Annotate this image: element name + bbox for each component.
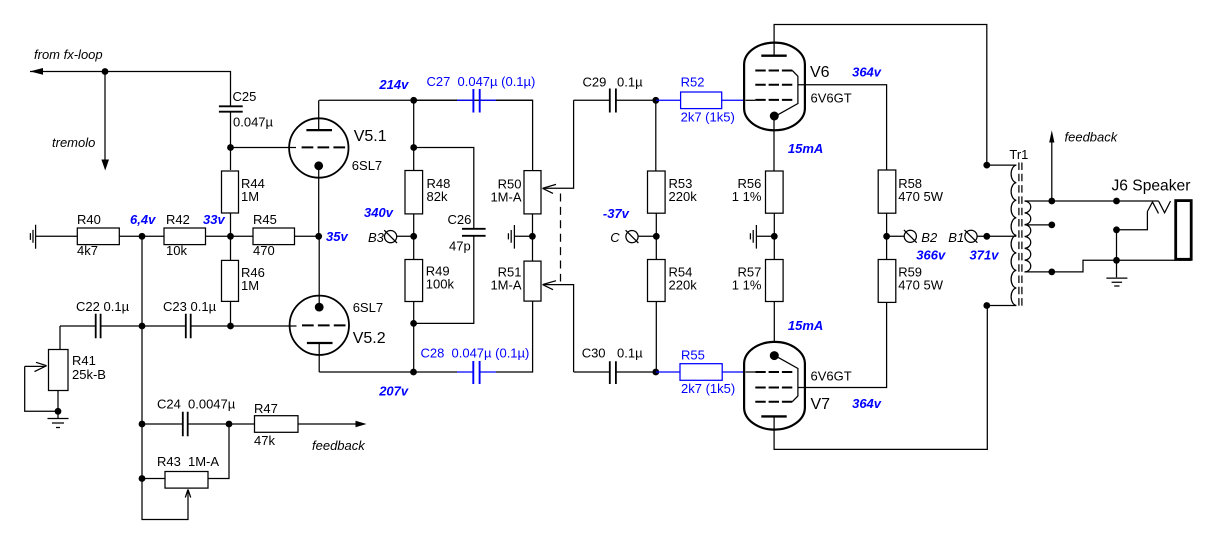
svg-text:C28: C28 — [421, 346, 445, 361]
ground left — [30, 225, 77, 249]
svg-text:1M-A: 1M-A — [188, 454, 219, 469]
svg-text:1M: 1M — [241, 189, 259, 204]
arrow tremolo — [101, 160, 109, 171]
svg-text:R42: R42 — [166, 212, 190, 227]
svg-text:470 5W: 470 5W — [898, 278, 944, 293]
svg-text:1M: 1M — [241, 278, 259, 293]
probe B3 — [397, 235, 414, 237]
svg-text:C27: C27 — [427, 74, 451, 89]
resistor R59 — [878, 260, 896, 303]
svg-text:B2: B2 — [921, 230, 938, 245]
node fx junction — [102, 68, 109, 75]
node 35v — [315, 233, 322, 240]
wire C22/C23 row — [60, 325, 297, 327]
wire V7 screen — [798, 302, 887, 388]
node 6,4v — [139, 233, 146, 240]
wire V5.2 plate — [319, 343, 413, 372]
wire speaker common — [1116, 230, 1118, 260]
svg-text:1M-A: 1M-A — [490, 278, 521, 293]
svg-text:364v: 364v — [852, 396, 882, 411]
svg-text:from fx-loop: from fx-loop — [34, 47, 103, 62]
svg-text:C30: C30 — [582, 345, 606, 360]
node speaker ring — [1113, 226, 1120, 233]
R41 wiper — [25, 366, 58, 411]
ground R41 — [48, 411, 69, 427]
node C26 top branch — [410, 144, 417, 151]
wire V6 plate top — [774, 25, 987, 166]
wire R45 to cathode node — [295, 235, 319, 237]
probe B2 — [887, 235, 905, 237]
wire to V5.1 grid — [231, 147, 297, 149]
wire secondary top tap — [1025, 200, 1159, 202]
wire primary bottom lead — [987, 305, 1017, 307]
node C29/R52/R53 — [652, 97, 659, 104]
wire R40-R42 — [119, 235, 164, 237]
node R56/R57 — [771, 233, 778, 240]
resistor R40 — [77, 228, 119, 245]
node R50/R51 mid — [529, 233, 536, 240]
node V5.1 plate / R48 — [410, 97, 417, 104]
resistor R57 — [766, 260, 784, 302]
svg-text:0.1µ: 0.1µ — [617, 74, 643, 89]
resistor R54 — [648, 260, 666, 302]
resistor R56 — [766, 171, 784, 213]
capacitor C24 — [142, 423, 229, 425]
svg-text:V5.2: V5.2 — [353, 330, 386, 347]
wire V6 cathode — [773, 118, 775, 171]
node below 33v — [227, 323, 234, 330]
svg-text:4k7: 4k7 — [77, 243, 98, 258]
resistor R49 — [405, 260, 423, 302]
wire V5.1 cathode — [318, 166, 320, 237]
resistor R42 — [164, 228, 206, 245]
wire R42-R45 — [206, 235, 254, 237]
dashed gang link — [560, 194, 562, 282]
wire R48 column top — [413, 100, 415, 170]
wire feedback — [1051, 142, 1053, 201]
potentiometer R50 — [524, 171, 541, 214]
svg-text:V6: V6 — [810, 64, 830, 81]
svg-text:371v: 371v — [970, 248, 1000, 263]
svg-text:2k7 (1k5): 2k7 (1k5) — [681, 110, 735, 125]
wire center column — [142, 236, 188, 519]
svg-text:C: C — [610, 230, 620, 245]
svg-text:R47: R47 — [254, 401, 278, 416]
svg-text:R45: R45 — [253, 212, 277, 227]
wire fx-loop bus — [30, 72, 231, 107]
node C24 junctions — [139, 421, 146, 428]
svg-text:6SL7: 6SL7 — [353, 300, 383, 315]
node R49 bottom / C26 — [410, 320, 417, 327]
svg-text:V5.1: V5.1 — [354, 128, 387, 145]
resistor R47 — [229, 423, 255, 425]
potentiometer R51 — [524, 261, 541, 301]
Tr1 secondary winding — [1025, 201, 1031, 272]
svg-text:0.047µ: 0.047µ — [233, 115, 274, 130]
svg-text:0.1µ: 0.1µ — [617, 345, 643, 360]
wire V7 cathode — [773, 302, 775, 355]
svg-text:0.0047µ: 0.0047µ — [188, 397, 236, 412]
svg-text:C29: C29 — [583, 74, 607, 89]
resistor R46 — [222, 260, 239, 301]
svg-text:15mA: 15mA — [788, 141, 823, 156]
resistor R55 — [656, 371, 745, 373]
svg-text:25k-B: 25k-B — [72, 367, 106, 382]
node below 6,4v — [139, 323, 146, 330]
svg-text:C25: C25 — [233, 89, 257, 104]
wire V6 screen — [798, 85, 887, 170]
svg-text:C26: C26 — [448, 212, 472, 227]
potentiometer R43 — [142, 424, 229, 479]
ground R50/R51 — [508, 225, 532, 249]
svg-text:J6 Speaker: J6 Speaker — [1112, 178, 1191, 195]
svg-text:R55: R55 — [681, 348, 705, 363]
svg-text:470 5W: 470 5W — [898, 189, 944, 204]
node primary bottom — [983, 302, 990, 309]
capacitor C26 — [462, 229, 486, 236]
wire secondary bottom tap — [1025, 260, 1192, 272]
triode V5.1 — [289, 118, 348, 177]
wire V5.1 plate — [319, 100, 533, 170]
svg-text:207v: 207v — [378, 384, 409, 399]
ground R56/R57 — [750, 225, 774, 249]
svg-text:35v: 35v — [326, 229, 348, 244]
svg-text:366v: 366v — [916, 248, 946, 263]
svg-text:Tr1: Tr1 — [1009, 147, 1028, 162]
svg-text:100k: 100k — [426, 276, 455, 291]
svg-text:6V6GT: 6V6GT — [811, 91, 852, 106]
wire primary top lead — [987, 164, 1017, 166]
svg-text:470: 470 — [253, 243, 275, 258]
capacitor C22 — [96, 314, 101, 339]
wire V5.2 cathode — [318, 236, 320, 307]
svg-text:feedback: feedback — [1065, 129, 1119, 144]
wire ring contact — [1117, 212, 1148, 230]
node B2 — [883, 233, 890, 240]
ground speaker — [1106, 260, 1127, 286]
wire feedback out — [298, 423, 356, 425]
svg-text:B1: B1 — [948, 230, 964, 245]
node R41 bottom — [55, 408, 62, 415]
svg-text:220k: 220k — [669, 189, 698, 204]
Tr1 core — [1019, 163, 1022, 309]
svg-text:R40: R40 — [77, 212, 101, 227]
Tr1 primary winding — [1011, 165, 1016, 305]
svg-text:0.047µ (0.1µ): 0.047µ (0.1µ) — [458, 74, 536, 89]
connector J6 jack body — [1176, 201, 1192, 260]
node B1 — [983, 233, 990, 240]
wire tremolo drop — [104, 72, 106, 161]
svg-text:15mA: 15mA — [788, 318, 823, 333]
jack contact zigzag — [1147, 201, 1170, 213]
capacitor C25 — [219, 106, 243, 111]
pentode V6 — [744, 43, 805, 131]
node bottom tap — [1048, 269, 1055, 276]
resistor R44 — [230, 148, 232, 171]
svg-text:6SL7: 6SL7 — [352, 158, 382, 173]
node C25/R44/grid — [227, 144, 234, 151]
capacitor C23 — [186, 314, 191, 339]
svg-text:0.047µ (0.1µ): 0.047µ (0.1µ) — [452, 346, 530, 361]
svg-text:47k: 47k — [254, 433, 275, 448]
node B3 — [410, 233, 417, 240]
svg-text:C24: C24 — [157, 397, 181, 412]
resistor R53 — [648, 171, 666, 213]
node C30/R55/R54 — [652, 369, 659, 376]
resistor R52 — [656, 99, 745, 101]
capacitor C28 — [414, 371, 458, 373]
svg-text:340v: 340v — [364, 205, 394, 220]
svg-text:33v: 33v — [203, 212, 225, 227]
svg-text:47p: 47p — [449, 239, 471, 254]
svg-text:214v: 214v — [378, 77, 409, 92]
svg-text:R52: R52 — [681, 75, 705, 90]
wire V7 plate bottom — [774, 306, 987, 450]
svg-text:82k: 82k — [427, 189, 448, 204]
svg-text:V7: V7 — [811, 396, 831, 413]
svg-text:tremolo: tremolo — [52, 135, 95, 150]
svg-text:1M-A: 1M-A — [490, 190, 521, 205]
resistor R48 — [405, 171, 423, 214]
R50 wiper to C29 — [544, 100, 610, 188]
svg-text:B3: B3 — [368, 230, 385, 245]
svg-text:220k: 220k — [669, 278, 698, 293]
potentiometer R41 — [59, 326, 61, 350]
R43 wiper arrow — [185, 490, 190, 498]
svg-text:-37v: -37v — [603, 206, 630, 221]
arrow from fx-loop — [30, 68, 43, 75]
svg-text:1 1%: 1 1% — [732, 278, 762, 293]
node mid tap — [1048, 222, 1055, 229]
node feedback tap — [1048, 198, 1055, 205]
svg-text:10k: 10k — [166, 243, 187, 258]
svg-text:0.1µ: 0.1µ — [104, 299, 130, 314]
pentode V7 — [744, 342, 805, 430]
node V5.2 plate / C28 — [410, 369, 417, 376]
R51 wiper to C30 — [544, 285, 610, 372]
wire R53 column — [655, 100, 657, 171]
resistor R45 — [253, 228, 295, 245]
svg-text:6,4v: 6,4v — [130, 212, 156, 227]
wire C26 bottom branch — [414, 236, 474, 324]
svg-text:C23: C23 — [163, 299, 187, 314]
svg-text:0.1µ: 0.1µ — [191, 299, 217, 314]
svg-text:C22: C22 — [76, 299, 100, 314]
resistor R58 — [886, 213, 888, 259]
svg-text:R41: R41 — [72, 353, 96, 368]
svg-text:R43: R43 — [157, 454, 181, 469]
node primary top — [983, 162, 990, 169]
capacitor C29 — [610, 89, 616, 113]
svg-text:2k7 (1k5): 2k7 (1k5) — [681, 381, 735, 396]
wire C26 top branch — [414, 148, 474, 229]
svg-text:6V6GT: 6V6GT — [811, 369, 852, 384]
node speaker sleeve — [1113, 257, 1120, 264]
svg-text:feedback: feedback — [312, 438, 366, 453]
capacitor C30 — [610, 361, 616, 384]
wire secondary mid tap — [1025, 224, 1052, 226]
svg-text:1 1%: 1 1% — [732, 189, 762, 204]
node 33v — [227, 233, 234, 240]
capacitor C27 — [414, 99, 457, 101]
svg-text:364v: 364v — [852, 64, 882, 79]
probe C — [638, 235, 656, 237]
node C probe — [653, 233, 660, 240]
triode V5.2 — [290, 296, 349, 355]
node speaker top — [1113, 198, 1120, 205]
